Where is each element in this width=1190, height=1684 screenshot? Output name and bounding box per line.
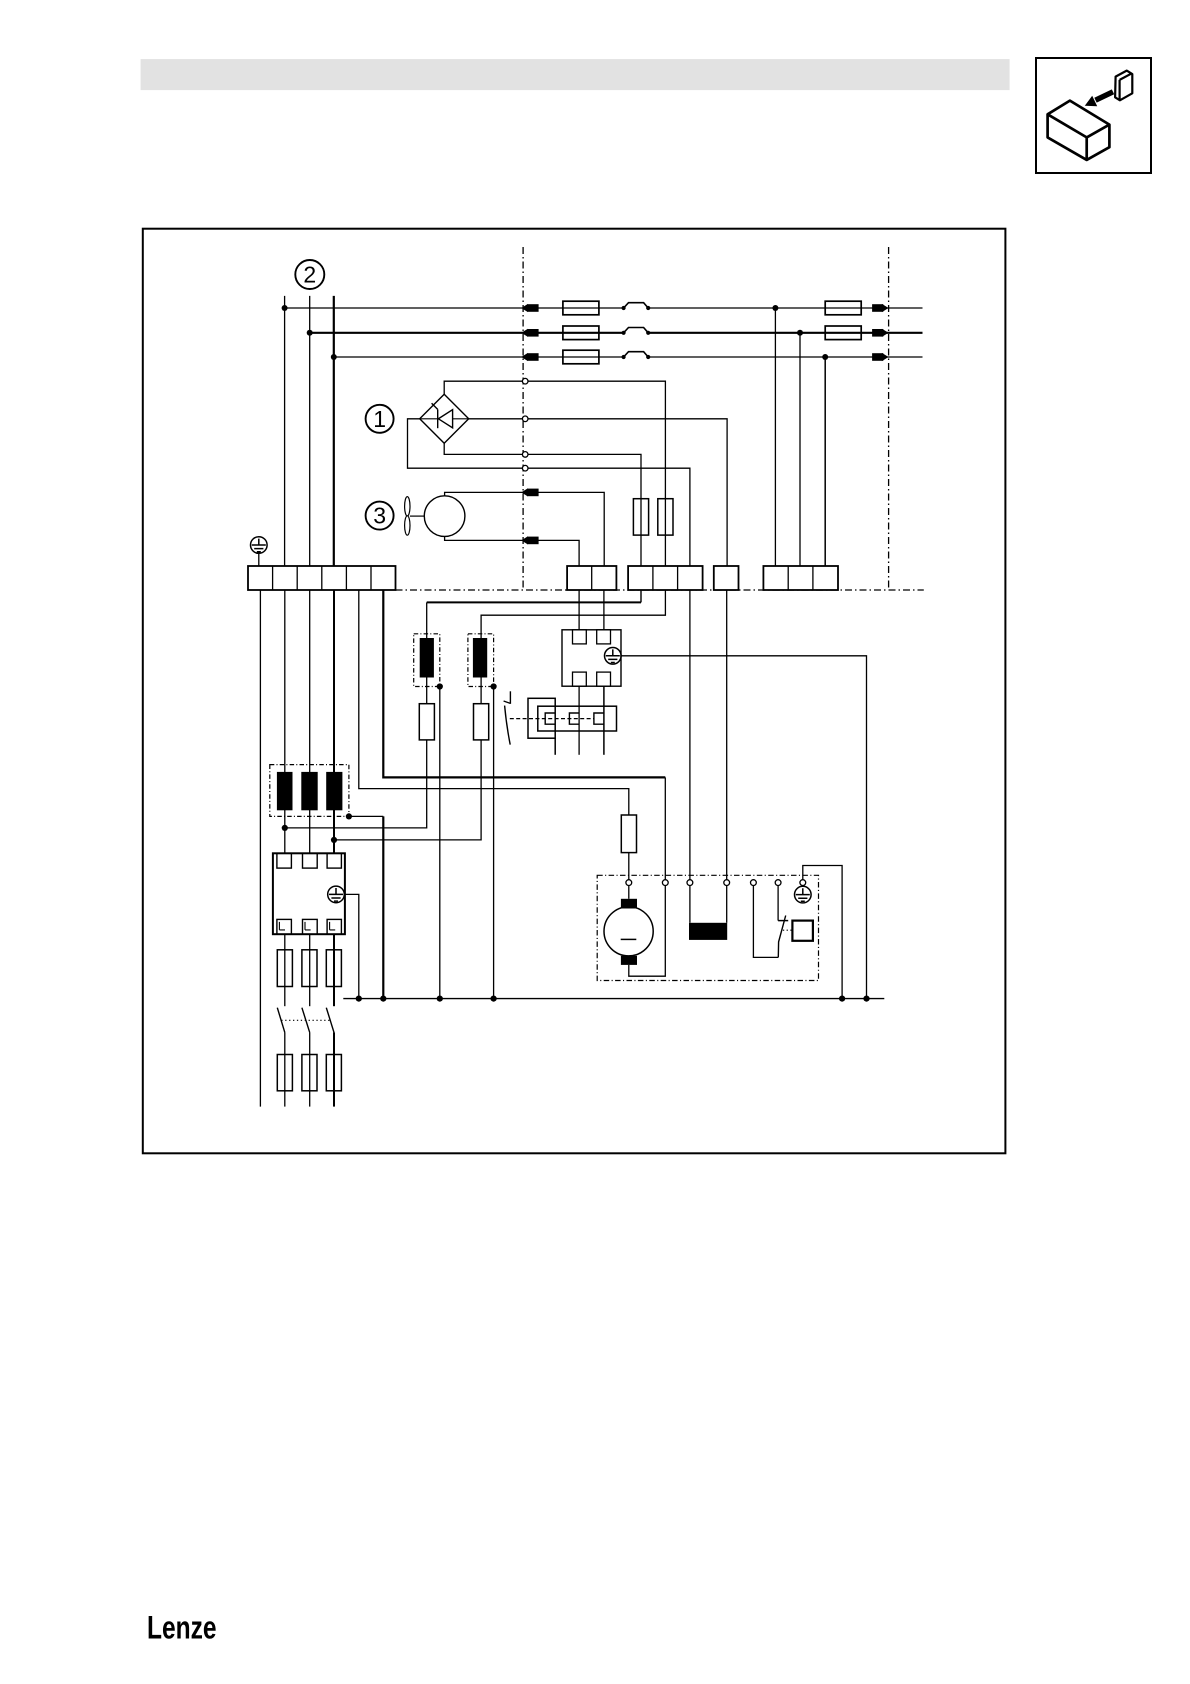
wire K1-5 down [309, 934, 311, 1006]
wire L2 drop to block D [799, 333, 801, 566]
junction F2 corner [491, 683, 497, 689]
cable terminal L3 left [521, 353, 538, 361]
fuse L1 [563, 301, 599, 315]
wire X3-3 to motor circle 3 [689, 590, 691, 880]
rectifier U1 wire C (bottom, to B1) [444, 443, 641, 566]
wire X1-5 to fuse and motor armature + [359, 590, 629, 815]
brake link (dotted) [783, 929, 793, 931]
cable terminal L3 right [872, 353, 888, 361]
fuse on B2 feed [658, 499, 673, 535]
DC motor M1 [604, 907, 653, 956]
ground PE2 in contactor [328, 886, 345, 903]
M1 bottom wire to circle 2 [629, 886, 666, 977]
motor terminal circle 2 [662, 880, 668, 886]
interlock connector S1 inner frame [538, 706, 617, 731]
cable terminal fan top [521, 488, 538, 496]
junction F1 corner [437, 683, 443, 689]
wire F1 bypass down to bus [439, 687, 441, 999]
junction on X1-2 wire [282, 825, 288, 831]
terminal block X4 (1 pole) [714, 566, 739, 590]
label circle 2 [295, 260, 324, 289]
svg-text:Lenze: Lenze [147, 1610, 217, 1646]
enclosure boundary horizontal (dash-dot) [396, 589, 924, 591]
interlock pin extension [554, 738, 556, 755]
brake switch blade [778, 916, 785, 958]
wire L3 drop to block D [824, 357, 826, 566]
wire X4 to motor circle 4 [726, 590, 728, 880]
K1 terminal 2 [303, 853, 318, 868]
microswitch S2 [509, 691, 511, 704]
icon plate [1115, 71, 1132, 101]
terminal block X5 (3 poles) [763, 566, 838, 590]
motor terminal circle 3 [687, 880, 693, 886]
K1 terminal 3 [327, 853, 341, 868]
wire L2 horizontal [310, 332, 923, 334]
switch Q1 blade 2 [302, 1008, 310, 1033]
fuse row1 phase1 [277, 950, 292, 987]
M1 brush top [621, 899, 637, 909]
ground PE1 [250, 537, 267, 554]
wire PE4 up and to bus [803, 866, 842, 999]
junction bus 4 [491, 996, 497, 1002]
terminal block X3 (3 poles) [628, 566, 703, 590]
enclosure boundary right (dash-dot) [888, 247, 890, 590]
schematic frame [143, 229, 1006, 1154]
wire X1-2 (L1) down to contactor [284, 590, 286, 853]
wire X1-4 (L3) down to contactor [333, 590, 335, 853]
wire F2 to fuse [480, 678, 482, 704]
fuse F5 on armature feed [621, 815, 636, 853]
wire X2-1 into plug pin [578, 590, 580, 636]
PE bus wire [343, 998, 884, 1000]
wire fuse F1 to L1 branch [285, 740, 427, 828]
interference suppressor F2 (boxed) [468, 634, 494, 687]
wire L1 horizontal [285, 307, 923, 309]
M1 stub [628, 886, 630, 899]
cable terminal L1 right [872, 304, 888, 312]
motor terminal circle 4 [724, 880, 730, 886]
wire B1 bottom to filter F1 (bold) [640, 590, 642, 602]
wire to motor circle 2 [664, 777, 666, 879]
brake switch wire from circle 6 [777, 886, 779, 921]
K1 terminal 1 [277, 853, 292, 868]
wire PE3 to bus [621, 656, 866, 999]
wire below switch 3 [333, 1032, 335, 1106]
fuse row1 phase2 [302, 950, 317, 987]
ground PE4 in motor unit [795, 886, 812, 903]
brake switch wire from circle 5 [753, 886, 778, 958]
enclosure boundary left (dash-dot) [522, 247, 524, 590]
icon arrow [1096, 92, 1114, 100]
pin X6-3 [573, 672, 587, 686]
junction on X1-4 wire [331, 837, 337, 843]
motor terminal circle 7 [800, 880, 806, 886]
K1 terminal 4 [277, 919, 292, 934]
wire L3 vertical drop [333, 296, 335, 566]
wire L3 horizontal [334, 356, 923, 358]
wire X6-3 down [578, 686, 580, 755]
brake switch tick [778, 920, 788, 922]
motor terminal circle 1 [626, 880, 632, 886]
svg-text:1: 1 [373, 406, 386, 432]
icon frame top right [1036, 58, 1151, 173]
wire X2-2 into plug pin [603, 590, 605, 636]
wire below switch 1 [284, 1032, 286, 1106]
cable terminal L2 left [521, 329, 538, 337]
fuse L3 [563, 350, 599, 364]
junction L3 [331, 354, 337, 360]
icon cuboid [1048, 101, 1110, 160]
wire K1-4 down [284, 934, 286, 1006]
wire fuse F2 to L3 branch [334, 740, 481, 840]
fan M3 blades [405, 497, 425, 536]
plug connector X6 [562, 630, 621, 686]
wire X1-6 to motor armature - (bold) [383, 590, 665, 777]
junction bus 3 [437, 996, 443, 1002]
wire PE2 to bus [344, 894, 359, 998]
junction bus 2 [380, 996, 386, 1002]
break link L3 [622, 352, 651, 360]
field resistor R1 wires [690, 886, 727, 923]
terminal circle U1-B [522, 416, 528, 422]
fuse row1 phase3 [326, 950, 341, 987]
rectifier U1 wire D (left, to B3) [408, 419, 690, 566]
terminal circle U1-A [522, 378, 528, 384]
fuse below F1 [419, 704, 434, 740]
title bar (gray) [141, 59, 1010, 90]
field resistor R1 [689, 923, 727, 940]
pin X6-2 [597, 630, 611, 644]
contact jaw 2 [569, 713, 579, 724]
junction bus 5 [839, 996, 845, 1002]
ground PE3 in plug [605, 648, 622, 665]
wire PE1 stub [258, 553, 260, 566]
fuse row2 phase1 [277, 1055, 292, 1091]
switch Q1 link (dotted) [281, 1019, 329, 1021]
wire L1 drop to block D [774, 308, 776, 566]
rectifier U1 wire A (top, to B2) [444, 381, 665, 566]
wire X1-1 (PE) down [259, 590, 261, 1107]
break link L1 [622, 303, 651, 311]
fan wire bottom (to A1) [445, 536, 579, 566]
terminal circle U1-D [522, 465, 528, 471]
pin X6-1 [573, 630, 587, 644]
fuse below F2 [474, 704, 489, 740]
switch Q1 blade 3 [326, 1008, 334, 1033]
motor terminal circle 5 [751, 880, 757, 886]
terminal block X1 (left, 6 poles) [248, 566, 396, 590]
brake magnet Y1 [792, 921, 813, 941]
fuse on B1 feed [633, 499, 648, 535]
wire fuse F5 to motor circle 1 [628, 853, 630, 880]
junction L1 right [772, 305, 778, 311]
fuse L1 right [825, 301, 861, 315]
svg-text:3: 3 [373, 503, 386, 529]
wire F1 to fuse [426, 678, 428, 704]
mechanical link (dashed) [510, 718, 594, 720]
wire below switch 2 [309, 1032, 311, 1106]
wire L2 vertical drop [309, 296, 311, 566]
junction Z1 corner [346, 813, 352, 819]
cable terminal L1 left [521, 304, 538, 312]
M1 brush bottom [621, 956, 637, 965]
wire K1-6 down [333, 934, 335, 1006]
wire X6-4 down [603, 686, 605, 755]
label circle 1 [366, 405, 394, 433]
junction L2 [307, 330, 313, 336]
terminal circle U1-C [522, 452, 528, 458]
RFI filter Z1 (boxed, 3 chokes) [270, 765, 349, 817]
K1 terminal 5 [303, 919, 318, 934]
terminal block X2 (2 poles) [567, 566, 616, 590]
wire L1 vertical drop [284, 296, 286, 566]
fan wire top (to A2) [445, 492, 605, 566]
rectifier U1 wire B (right, to C1) [469, 419, 727, 566]
rectifier U1 (controlled bridge) [420, 394, 469, 443]
K1 contact marks [279, 922, 335, 930]
wire F2 bypass down to bus [493, 687, 495, 999]
wire B2 bottom to filter F2 [481, 590, 665, 638]
cable terminal L2 right [872, 329, 888, 337]
contact jaw 3 [594, 713, 604, 724]
junction L1 [282, 305, 288, 311]
fuse L2 [563, 326, 599, 340]
junction bus 1 [356, 996, 362, 1002]
wire Z1 corner to bus (bold) [349, 815, 383, 817]
wire X1-3 (L2) down to contactor [309, 590, 311, 853]
interference suppressor F1 (boxed) [414, 634, 440, 687]
fan M3 motor [424, 496, 465, 537]
contactor K1 [273, 853, 345, 934]
contact jaw 1 [545, 713, 555, 724]
fuse row2 phase2 [302, 1055, 317, 1091]
fuse row2 phase3 [326, 1055, 341, 1091]
K1 terminal 6 [327, 919, 341, 934]
svg-text:2: 2 [303, 262, 316, 288]
pin X6-4 [597, 672, 611, 686]
motor unit boundary (dash-dot) [597, 875, 818, 980]
motor terminal circle 6 [775, 880, 781, 886]
label circle 3 [366, 502, 394, 530]
junction bus 6 [863, 996, 869, 1002]
cable terminal fan bottom [521, 536, 538, 544]
break link L2 [622, 328, 651, 336]
switch Q1 blade 1 [277, 1008, 285, 1033]
junction L3 right [822, 354, 828, 360]
fuse L2 right [825, 326, 861, 340]
junction L2 right [797, 330, 803, 336]
M1 armature line [621, 938, 637, 940]
interlock connector S1 outer [528, 698, 555, 738]
